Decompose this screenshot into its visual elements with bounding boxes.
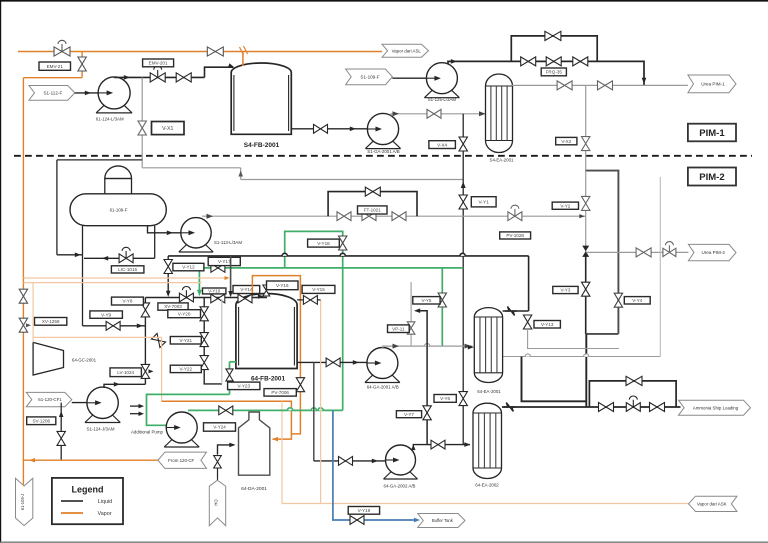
valve EMV-201 actuated bbox=[150, 73, 165, 82]
valve on discharge to 64-EA-2002 bbox=[431, 440, 445, 449]
svg-text:64-GA-2001 A/B: 64-GA-2001 A/B bbox=[367, 385, 399, 390]
valve after EMV-201 bbox=[176, 73, 191, 82]
svg-text:V-X2: V-X2 bbox=[561, 139, 571, 144]
wire drum leg left bbox=[82, 226, 84, 326]
valve on 64-FB outlet bbox=[326, 358, 340, 367]
wire gray below dashed bbox=[142, 167, 241, 169]
valve V-Y21 bbox=[200, 333, 208, 347]
wire V-Y20 chain bbox=[204, 298, 222, 384]
wire 64-GA-2002 discharge bbox=[413, 445, 470, 447]
svg-text:Vapor dari ASK: Vapor dari ASK bbox=[697, 501, 727, 506]
label V-Y2 bbox=[552, 202, 578, 209]
wire FT bypass loop bbox=[328, 192, 417, 217]
valve V-Y4 bbox=[614, 293, 622, 307]
node S1-109-F banner bbox=[346, 69, 393, 85]
label EMV-201 bbox=[143, 59, 174, 67]
label V-Y19 bbox=[348, 507, 379, 515]
label LIC-1015 bbox=[111, 266, 143, 273]
svg-text:V-Y17: V-Y17 bbox=[218, 259, 231, 264]
valve on Urea PIM-1 line 2 bbox=[598, 81, 613, 90]
wire Urea PIM-2 line bbox=[586, 251, 689, 253]
valve V-X1 bbox=[138, 121, 146, 135]
svg-text:V-Y18: V-Y18 bbox=[317, 241, 330, 246]
valve VP-11 bbox=[407, 322, 415, 334]
svg-text:PIM-1: PIM-1 bbox=[699, 128, 725, 139]
valve V-Y13 bbox=[523, 315, 531, 329]
svg-text:V-Y19: V-Y19 bbox=[358, 508, 371, 513]
node Urea PIM-2 banner bbox=[688, 244, 736, 260]
valve on vapor header bbox=[207, 47, 223, 56]
wire drum outlet to pump S1-113 bbox=[148, 226, 191, 233]
svg-text:PV-1028: PV-1028 bbox=[506, 233, 524, 238]
svg-text:61-120-CF1: 61-120-CF1 bbox=[38, 397, 62, 402]
valve on header 1 bbox=[521, 57, 536, 66]
valve PV-1028 actuated bbox=[508, 212, 522, 221]
valve FT line 1 bbox=[337, 212, 351, 221]
breaker to 64-EA-2001 bbox=[503, 310, 529, 312]
wire header bypass loop bbox=[511, 36, 597, 62]
wire ammonia bypass bbox=[589, 381, 676, 407]
wire green header bbox=[199, 267, 463, 269]
valve V-Y9 bbox=[106, 321, 120, 330]
svg-text:EMV-201: EMV-201 bbox=[149, 61, 168, 66]
label V-Y22 bbox=[170, 365, 201, 372]
breaker on ammonia line bbox=[504, 403, 516, 412]
label V-Y4 bbox=[624, 297, 650, 304]
svg-text:V-Y16: V-Y16 bbox=[276, 283, 289, 288]
label V-Y16 bbox=[267, 281, 299, 290]
pump 61-124-L/3AM bbox=[96, 102, 132, 113]
valve angle relief bbox=[151, 333, 165, 347]
node tick arrows into green bbox=[130, 405, 141, 407]
page border top bbox=[0, 0, 768, 2]
wire pump S1-GA-2001 discharge bbox=[391, 114, 487, 116]
valve V-X4 bbox=[459, 137, 467, 151]
wire gray vertical right bbox=[659, 177, 661, 357]
vessel 64-FB-2001 bbox=[236, 294, 297, 369]
wire SV-1206 drop bbox=[60, 403, 62, 461]
page border left bbox=[0, 0, 2, 543]
svg-text:V-Y22: V-Y22 bbox=[180, 367, 193, 372]
valve V-Y6 bbox=[459, 392, 467, 406]
valve on discharge bbox=[427, 109, 441, 118]
svg-text:61-105-J: 61-105-J bbox=[20, 494, 25, 511]
label XV-1259 bbox=[35, 318, 67, 326]
pump Additional Pump bbox=[164, 437, 199, 448]
wire pump 61-124 discharge bbox=[114, 76, 204, 78]
label V-Y18 bbox=[308, 239, 340, 247]
svg-text:V-Y6: V-Y6 bbox=[440, 396, 450, 401]
label V-Y20 bbox=[168, 310, 201, 318]
node Vapor dari ASL banner bbox=[382, 44, 429, 57]
valve V-Y8 bbox=[141, 303, 149, 317]
wire return drop right bbox=[522, 357, 587, 402]
svg-text:S1-112-F: S1-112-F bbox=[43, 91, 62, 96]
svg-text:HO: HO bbox=[214, 499, 219, 506]
valve PV-7006 on orange bbox=[296, 378, 304, 392]
wire peach vapor dari ASK line bbox=[282, 503, 689, 505]
valve FT bypass bbox=[365, 187, 380, 196]
wire V-Y13 tail bbox=[528, 329, 619, 349]
label V-Y13 bbox=[534, 321, 560, 329]
svg-text:V-Y14: V-Y14 bbox=[240, 287, 253, 292]
wire vessel inlet drop bbox=[230, 256, 232, 295]
wire V-Y15 line bbox=[297, 299, 321, 301]
svg-text:Vapor: Vapor bbox=[98, 511, 112, 517]
svg-text:Ammonia Ship Loading: Ammonia Ship Loading bbox=[693, 405, 739, 410]
svg-text:S1-GA-2001 A/B: S1-GA-2001 A/B bbox=[367, 149, 400, 154]
valve on Urea PIM-2 line bbox=[636, 248, 651, 257]
svg-text:V-Y12: V-Y12 bbox=[182, 265, 195, 270]
wire main black line PIM-2 bbox=[168, 255, 528, 257]
label PIM-1 bbox=[688, 124, 736, 142]
wire valve to HO pennant bbox=[217, 468, 219, 480]
valve on orange margin 2 XV-1259 bbox=[19, 318, 27, 332]
valve LV-1024 bbox=[141, 364, 149, 378]
label FT-1021 bbox=[358, 206, 388, 214]
heat exchanger 64-EA-2002 bbox=[473, 403, 502, 478]
valve V-Y19 on blue line bbox=[350, 516, 364, 525]
wire V-X2 branch elbow bbox=[586, 171, 619, 334]
label V-Y9 bbox=[90, 311, 123, 318]
svg-text:Urea PIM-2: Urea PIM-2 bbox=[701, 250, 725, 255]
label LV-1024 bbox=[110, 368, 141, 377]
wire V-Y12 drop bbox=[167, 256, 169, 294]
wire pump S1-124 discharge bbox=[104, 384, 145, 388]
svg-text:V-X4: V-X4 bbox=[437, 142, 447, 147]
valve FT line 2 bbox=[362, 212, 376, 221]
node From 120-CF banner bbox=[158, 452, 207, 468]
label EMV-21 bbox=[39, 62, 71, 70]
valve on bypass bbox=[545, 31, 561, 40]
svg-text:Liquid: Liquid bbox=[98, 499, 112, 505]
wire V-Y8 drop bbox=[144, 298, 146, 385]
pump S1-113-L/3AM bbox=[179, 242, 213, 253]
valve V-Y17 bbox=[211, 264, 225, 273]
wire green discharge V-Y24 bbox=[188, 409, 343, 411]
legend box bbox=[52, 478, 123, 524]
svg-text:V-Y9: V-Y9 bbox=[101, 312, 111, 317]
label V-Y14 bbox=[233, 286, 260, 294]
wire to pump S1-124 bbox=[72, 402, 97, 404]
svg-text:S1-124-J/3AM: S1-124-J/3AM bbox=[86, 426, 114, 431]
wire drop to 64-GA-2002 suction bbox=[313, 362, 315, 461]
label V-Y23 bbox=[228, 382, 260, 390]
wire orange left margin vertical bbox=[22, 78, 24, 485]
label XV-7003 bbox=[158, 303, 188, 310]
wire V-X4 black drop bbox=[462, 114, 464, 445]
svg-text:V-Y2: V-Y2 bbox=[560, 203, 570, 208]
svg-text:V-Y8: V-Y8 bbox=[122, 299, 132, 304]
valve on suction bbox=[339, 457, 353, 466]
svg-text:64-GC-2001: 64-GC-2001 bbox=[72, 357, 97, 362]
svg-text:V-Y15: V-Y15 bbox=[312, 287, 325, 292]
wire elbow join V-Y3/V-Y4 bbox=[586, 333, 619, 335]
valve V-Y22 bbox=[200, 356, 208, 370]
wire 64-GA-2001 discharge to 64-EA-2001 bbox=[383, 346, 473, 349]
wire S1-109-F to pump bbox=[392, 77, 435, 79]
wire LIC-1015 line bbox=[84, 257, 155, 259]
label V-X2 bbox=[556, 137, 577, 144]
legend vapor entry bbox=[61, 512, 83, 514]
svg-text:Buffer Tank: Buffer Tank bbox=[432, 518, 454, 523]
wire thick drop to loading line bbox=[585, 334, 587, 407]
label PV-7006 bbox=[264, 389, 296, 397]
label V-Y15 bbox=[302, 285, 335, 293]
wire 64-FB outlet to pump 64-GA-2001 bbox=[297, 361, 367, 363]
label VP-11 bbox=[388, 325, 410, 333]
pump S1-GA-2001 A/B bbox=[365, 138, 400, 149]
node Vapor dari ASK banner bbox=[689, 496, 738, 511]
svg-text:FRQ-35: FRQ-35 bbox=[546, 70, 563, 75]
wire orange vapor header bbox=[18, 51, 382, 53]
wire gray riser bbox=[240, 168, 242, 180]
wire V-Y3 black drop bbox=[585, 252, 587, 334]
wire elbow into S4-FB-2001 bbox=[205, 67, 234, 77]
svg-text:S1-109-F: S1-109-F bbox=[360, 75, 379, 80]
valve on header 3 bbox=[573, 57, 588, 66]
wire peach drop to ASK line bbox=[281, 401, 283, 503]
wire peach drop to DA line bbox=[161, 337, 163, 401]
valve V-X2 bbox=[582, 137, 590, 151]
vessel 64-DA-2001 bbox=[239, 412, 270, 475]
pump 64-GA-2002 A/B bbox=[384, 469, 418, 480]
label FRQ-35 bbox=[541, 68, 566, 76]
valve on orange margin 1 bbox=[19, 289, 27, 303]
node Buffer Tank banner bbox=[418, 514, 465, 528]
svg-text:V-Y7: V-Y7 bbox=[404, 412, 414, 417]
svg-text:VP-11: VP-11 bbox=[392, 326, 405, 331]
svg-text:S1-125-L/3AM: S1-125-L/3AM bbox=[428, 97, 457, 102]
valve ammonia 1 bbox=[599, 403, 614, 412]
wire V-Y2 drop bbox=[585, 171, 587, 252]
wire thick drop to breaker bbox=[528, 256, 530, 311]
wire orange vent into S4-FB bbox=[242, 52, 244, 67]
svg-text:V-Y1: V-Y1 bbox=[478, 200, 489, 206]
label PV-1028 bbox=[500, 232, 531, 239]
valve ammonia 2 bbox=[650, 403, 665, 412]
heat exchanger 64-EA-2001 bbox=[474, 308, 502, 383]
svg-text:Legend: Legend bbox=[71, 485, 103, 495]
wire green V-Y23 drop bbox=[229, 362, 231, 395]
svg-text:61-124-L/3AM: 61-124-L/3AM bbox=[96, 117, 124, 122]
svg-text:S1-113-L/3AM: S1-113-L/3AM bbox=[214, 240, 242, 245]
label V-Y10 bbox=[203, 288, 226, 294]
label V-Y6 bbox=[434, 395, 456, 403]
wire gray long return line bbox=[503, 356, 661, 358]
wire drum outlet right to LIC bbox=[154, 226, 156, 259]
svg-text:Vapor dari ASL: Vapor dari ASL bbox=[392, 48, 422, 53]
wire V-X2 drop from Urea PIM-1 line bbox=[585, 85, 587, 170]
svg-text:V-Y5: V-Y5 bbox=[421, 298, 431, 303]
label V-Y3 bbox=[553, 286, 578, 293]
page border bottom bbox=[0, 541, 768, 543]
valve V-Y14 bbox=[238, 294, 252, 303]
wire gray V-X1 drop bbox=[141, 77, 143, 167]
label SV-1206 bbox=[27, 417, 56, 425]
valve V-Y10 bbox=[211, 294, 225, 303]
wire green drop to XV-7003 line bbox=[198, 268, 200, 294]
compressor 64-GC-2001 bbox=[33, 342, 63, 375]
vessel S4-FB-2001 bbox=[231, 63, 291, 134]
wire green V-Y5 drop bbox=[441, 268, 443, 346]
node 61-105-J pennant bbox=[16, 478, 33, 525]
label V-X1 bbox=[152, 122, 185, 135]
pump S1-124-J/3AM bbox=[85, 412, 120, 423]
wire green inlet to 64-FB bbox=[230, 361, 236, 363]
valve V-Y2 bbox=[582, 196, 590, 210]
wire XV-7003 header bbox=[145, 297, 267, 299]
svg-text:Additional Pump: Additional Pump bbox=[131, 430, 164, 435]
valve on Urea PIM-1 line 1 bbox=[557, 81, 572, 90]
svg-text:V-Y3: V-Y3 bbox=[560, 288, 570, 293]
wire peach second bbox=[23, 282, 201, 284]
svg-text:V-Y23: V-Y23 bbox=[237, 384, 250, 389]
wire black split at dashed line bbox=[57, 159, 142, 161]
wire S4-FB outlet to pump S1-GA-2001 bbox=[291, 128, 367, 130]
heat exchanger S4-EA-2001 bbox=[486, 74, 513, 153]
valve ammonia bypass bbox=[626, 376, 642, 385]
label V-Y8 bbox=[112, 297, 144, 305]
node Urea PIM-1 banner bbox=[688, 75, 736, 93]
valve actuated on Urea PIM-2 line bbox=[663, 248, 676, 256]
pump 64-GA-2001 A/B bbox=[365, 372, 400, 383]
svg-text:V-Y13: V-Y13 bbox=[541, 322, 554, 327]
wire from-120CF to bottle bbox=[218, 445, 235, 455]
svg-text:S4-EA-2001: S4-EA-2001 bbox=[490, 158, 514, 163]
wire peach compressor outlet bbox=[33, 336, 162, 338]
label V-Y1 bbox=[471, 197, 496, 207]
svg-text:V-Y20: V-Y20 bbox=[178, 311, 191, 316]
valve V-Y12 bbox=[164, 260, 172, 274]
wire 64-GA-2002 suction bbox=[314, 460, 394, 462]
wire peach upper bbox=[23, 277, 225, 279]
valve SV-1206 bbox=[57, 431, 65, 445]
svg-text:S4-FB-2001: S4-FB-2001 bbox=[244, 142, 280, 149]
label V-X4 bbox=[429, 141, 456, 149]
valve on from-120CF line bbox=[214, 456, 222, 468]
valve V-Y18 green bbox=[339, 236, 347, 250]
valve V-Y15 bbox=[303, 296, 317, 305]
wire orange DA feed bbox=[162, 401, 292, 439]
svg-text:PIM-2: PIM-2 bbox=[699, 172, 724, 183]
svg-text:64-EA-2001: 64-EA-2001 bbox=[477, 389, 501, 394]
wire V-Y7 branch bbox=[416, 311, 428, 445]
valve V-Y1 bbox=[459, 195, 467, 209]
legend liquid entry bbox=[61, 500, 83, 502]
valve EMV-21 actuated bbox=[54, 47, 70, 56]
wire VP-11 gray line bbox=[410, 282, 412, 346]
valve LIC-1015 actuated bbox=[119, 254, 133, 263]
label V-Y24 bbox=[204, 423, 236, 431]
svg-text:EMV-21: EMV-21 bbox=[47, 64, 64, 69]
wire ammonia loading line bbox=[502, 406, 681, 408]
svg-text:XV-7003: XV-7003 bbox=[164, 304, 182, 309]
label V-Y21 bbox=[170, 337, 201, 345]
label V-Y5 bbox=[413, 297, 440, 304]
node S1-112-F inlet banner bbox=[29, 86, 75, 101]
wire green V-Y18 corner bbox=[285, 231, 343, 410]
wire peach V-Y15 drop bbox=[320, 300, 322, 504]
wire pump S1-125 discharge header bbox=[448, 61, 644, 85]
valve on header 2 bbox=[546, 57, 561, 66]
svg-text:64-GA-2002 A/B: 64-GA-2002 A/B bbox=[384, 484, 416, 489]
wire peach compressor suction bbox=[32, 283, 34, 343]
svg-text:FT-1021: FT-1021 bbox=[364, 208, 382, 213]
valve XV-7003 actuated bbox=[179, 293, 193, 302]
node 61-120-CF1 banner bbox=[26, 392, 72, 406]
wire orange over 64-FB dome bbox=[252, 276, 300, 434]
valve V-Y5 bbox=[438, 293, 446, 307]
svg-text:V-Y10: V-Y10 bbox=[208, 289, 221, 294]
svg-text:64-EA-2002: 64-EA-2002 bbox=[475, 483, 499, 488]
valve on orange branch bbox=[78, 57, 86, 71]
pump S1-125-L/3AM bbox=[424, 87, 459, 98]
vessel 61-109-F drum bbox=[105, 179, 132, 194]
wire orange to left margin bbox=[23, 77, 82, 79]
wire green to additional pump bbox=[147, 394, 230, 425]
svg-text:Urea PIM-1: Urea PIM-1 bbox=[701, 82, 725, 87]
valve ammonia actuated bbox=[626, 403, 640, 412]
wire S1-112-F to pump 61-124 bbox=[75, 92, 109, 94]
wire black left drop bbox=[56, 160, 58, 255]
wire gray to V-Y1 line bbox=[241, 179, 464, 181]
wire into drum leg bbox=[57, 254, 83, 256]
svg-text:LV-1024: LV-1024 bbox=[117, 370, 134, 375]
label V-Y17 bbox=[208, 257, 240, 265]
svg-text:61-109-F: 61-109-F bbox=[110, 208, 128, 213]
valve V-Y7 bbox=[423, 406, 431, 420]
wire blue buffer line bbox=[333, 410, 418, 520]
label V-Y7 bbox=[396, 411, 421, 418]
valve small vent V-Y16 bbox=[263, 285, 270, 296]
svg-text:PV-7006: PV-7006 bbox=[271, 390, 289, 395]
node junction flow element bbox=[582, 246, 589, 252]
wire orange From 120-CF line bbox=[23, 459, 158, 461]
svg-text:V-Y24: V-Y24 bbox=[213, 425, 226, 430]
valve V-Y24 green bbox=[219, 406, 233, 415]
svg-text:SV-1206: SV-1206 bbox=[32, 418, 50, 423]
wire S4-EA top outlet to Urea PIM-1 bbox=[511, 84, 688, 86]
label PIM-2 bbox=[688, 168, 736, 186]
valve V-Y20 bbox=[200, 307, 208, 321]
valve V-Y23 green bbox=[226, 369, 233, 381]
valve on S4-FB outlet bbox=[314, 124, 328, 133]
dashed PIM boundary line bbox=[14, 155, 752, 157]
wire pump S1-113 discharge bbox=[202, 215, 586, 217]
svg-text:LIC-1015: LIC-1015 bbox=[118, 267, 137, 272]
svg-text:XV-1259: XV-1259 bbox=[42, 319, 60, 324]
wire V-Y9 line from drum leg bbox=[83, 325, 146, 327]
svg-text:64-DA-2001: 64-DA-2001 bbox=[241, 486, 267, 492]
svg-text:V-Y21: V-Y21 bbox=[180, 338, 193, 343]
valve FT line 3 bbox=[392, 212, 406, 221]
label V-Y12 bbox=[173, 263, 204, 271]
wire orange branch down to EMV-21 loop bbox=[81, 52, 83, 78]
valve V-Y3 bbox=[582, 282, 590, 296]
wire gray parallel bbox=[221, 299, 223, 384]
node Ammonia Ship Loading banner bbox=[679, 400, 751, 415]
svg-text:V-Y4: V-Y4 bbox=[632, 298, 642, 303]
node HO pennant bbox=[209, 480, 225, 526]
svg-text:From 120-CF: From 120-CF bbox=[168, 458, 194, 463]
svg-text:V-X1: V-X1 bbox=[162, 126, 173, 132]
